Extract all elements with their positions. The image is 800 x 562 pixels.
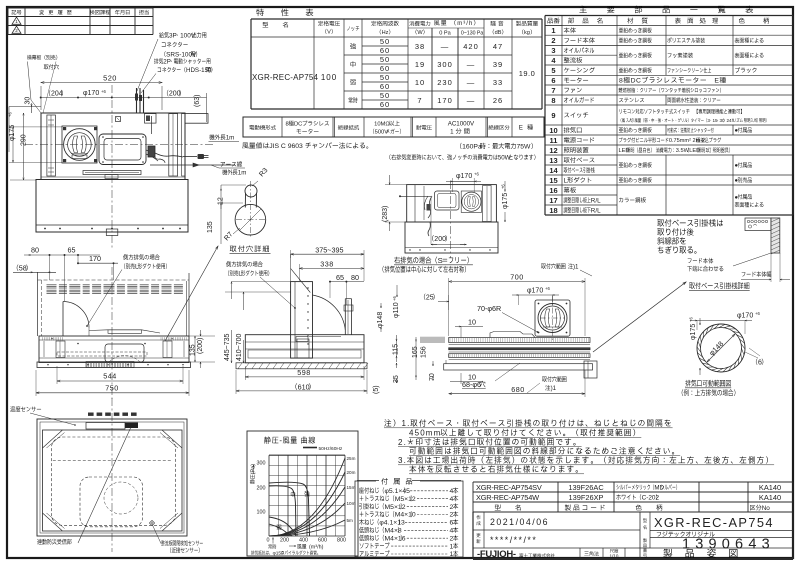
svg-text:φ170: φ170 (737, 313, 753, 320)
svg-text:6: 6 (551, 76, 555, 85)
svg-text:33: 33 (493, 78, 503, 87)
svg-text:11: 11 (550, 136, 558, 145)
svg-text:139F26AC: 139F26AC (568, 483, 604, 492)
svg-text:700: 700 (510, 273, 524, 282)
svg-text:50: 50 (380, 37, 390, 46)
svg-text:●: ● (735, 195, 739, 201)
svg-text:100: 100 (321, 73, 337, 82)
svg-text:200: 200 (434, 236, 446, 243)
svg-text:(5): (5) (373, 385, 380, 394)
svg-text:10: 10 (415, 78, 425, 87)
svg-text:m³/h: m³/h (457, 21, 473, 27)
svg-text:50: 50 (380, 91, 390, 100)
svg-text:0: 0 (267, 538, 270, 544)
svg-text:5: 5 (551, 66, 555, 75)
svg-text:15: 15 (549, 176, 557, 185)
svg-text:+6: +6 (474, 172, 479, 177)
svg-text:dB: dB (495, 30, 502, 36)
svg-text:65: 65 (68, 246, 76, 255)
svg-text:200: 200 (257, 486, 266, 492)
svg-text:(m³/h): (m³/h) (309, 545, 324, 551)
svg-text:1: 1 (551, 26, 555, 35)
svg-text:10: 10 (468, 318, 476, 327)
svg-text:****/**/**: ****/**/** (490, 535, 537, 545)
svg-text:38: 38 (415, 42, 425, 51)
svg-text:450mm: 450mm (409, 429, 441, 438)
svg-text:610: 610 (298, 382, 310, 391)
svg-text:3: 3 (707, 118, 710, 123)
svg-text:12: 12 (549, 146, 557, 155)
svg-text:50W: 50W (498, 155, 511, 162)
svg-text:680: 680 (511, 385, 525, 394)
svg-text:+6: +6 (500, 184, 505, 189)
svg-text:L: L (564, 177, 568, 184)
svg-text:φ5.1×45: φ5.1×45 (385, 488, 411, 495)
svg-text:●: ● (735, 178, 739, 184)
svg-text:4: 4 (450, 496, 454, 503)
svg-text:4: 4 (450, 488, 454, 495)
svg-text:2: 2 (450, 504, 454, 511)
svg-text:1m: 1m (238, 170, 247, 177)
svg-text:60: 60 (380, 64, 390, 73)
svg-text:M5×12: M5×12 (385, 504, 406, 511)
svg-text:600: 600 (318, 538, 327, 544)
svg-text:+6: +6 (545, 286, 550, 291)
svg-text:750: 750 (105, 384, 119, 393)
svg-text:520: 520 (103, 74, 117, 83)
svg-text:E: E (714, 78, 719, 85)
svg-text:)1: )1 (573, 264, 579, 271)
svg-text:XGR-REC-AP754W: XGR-REC-AP754W (476, 493, 539, 502)
svg-text:5m: 5m (347, 518, 354, 523)
svg-text:100V: 100V (180, 33, 196, 40)
svg-text:58: 58 (19, 264, 27, 273)
svg-text:8: 8 (286, 122, 289, 128)
svg-text:60: 60 (380, 100, 390, 109)
svg-text:139F26XP: 139F26XP (569, 493, 604, 502)
svg-text:V: V (327, 30, 331, 36)
svg-text:165: 165 (412, 346, 419, 358)
svg-text:7: 7 (417, 96, 422, 105)
svg-text:KA140: KA140 (759, 483, 781, 492)
svg-text:135: 135 (207, 221, 214, 233)
svg-text:170: 170 (89, 254, 101, 263)
svg-text:DC: DC (294, 122, 302, 128)
svg-text:2: 2 (450, 512, 454, 519)
svg-text:25: 25 (426, 295, 434, 302)
svg-text:φ148: φ148 (377, 312, 384, 328)
svg-text:115: 115 (393, 344, 400, 355)
svg-text:φ110: φ110 (393, 302, 400, 318)
svg-text:160Pa: 160Pa (462, 144, 482, 151)
svg-text:135: 135 (190, 344, 197, 356)
svg-text:200: 200 (169, 91, 181, 98)
svg-text:6: 6 (450, 520, 454, 527)
svg-text:300: 300 (437, 60, 453, 69)
svg-text:50Hz/60Hz: 50Hz/60Hz (319, 446, 343, 452)
svg-text:10: 10 (549, 126, 557, 135)
svg-text:80: 80 (351, 273, 359, 282)
svg-text:φ175: φ175 (690, 324, 697, 340)
svg-text:65: 65 (336, 273, 344, 282)
svg-text:200: 200 (280, 538, 289, 544)
svg-text:500V: 500V (375, 130, 389, 136)
svg-text:8: 8 (619, 78, 623, 85)
svg-text:S: S (438, 256, 443, 265)
svg-text:2: 2 (551, 36, 555, 45)
svg-text:M4×16: M4×16 (385, 535, 406, 542)
svg-text:15m: 15m (347, 485, 356, 490)
svg-text:230: 230 (437, 78, 453, 87)
svg-text:AC1000V: AC1000V (448, 121, 475, 128)
svg-text:+6: +6 (755, 311, 760, 316)
svg-text:1m: 1m (226, 135, 235, 142)
svg-text:-FUJIOH-: -FUJIOH- (477, 549, 516, 560)
svg-text:XGR-REC-AP754: XGR-REC-AP754 (252, 73, 319, 82)
svg-text:60: 60 (380, 46, 390, 55)
svg-text:2P: 2P (163, 59, 171, 66)
svg-text:(283): (283) (382, 206, 389, 222)
svg-text:-: - (279, 436, 282, 445)
svg-text:100: 100 (257, 510, 266, 516)
svg-text:19.0: 19.0 (519, 69, 536, 78)
svg-text:290: 290 (21, 134, 28, 146)
svg-text:2.: 2. (398, 438, 407, 447)
svg-text:+6: +6 (8, 112, 13, 117)
svg-text:φ170: φ170 (456, 173, 472, 180)
svg-text:—: — (441, 42, 450, 51)
svg-text:445~735: 445~735 (224, 333, 231, 361)
svg-text:4: 4 (450, 528, 454, 535)
svg-text:26: 26 (493, 96, 503, 105)
svg-text:JIS C 9603: JIS C 9603 (269, 143, 303, 150)
svg-text:0~130 Pa: 0~130 Pa (461, 31, 483, 37)
svg-text:80: 80 (31, 246, 39, 255)
svg-text:800: 800 (337, 538, 346, 544)
svg-text:XGR-REC-AP754SV: XGR-REC-AP754SV (476, 483, 542, 492)
svg-text:φ175: φ175 (9, 125, 16, 141)
svg-text:—: — (467, 78, 476, 87)
svg-text:2021/04/06: 2021/04/06 (490, 517, 549, 527)
svg-text:1: 1 (450, 543, 454, 550)
svg-text:420: 420 (463, 42, 479, 51)
svg-text:Hz: Hz (382, 30, 389, 36)
svg-text:7: 7 (551, 86, 555, 95)
svg-text:300: 300 (257, 461, 266, 467)
svg-text:+6: +6 (689, 317, 694, 322)
svg-text:9: 9 (551, 111, 555, 120)
svg-text:15: 15 (713, 118, 719, 123)
svg-text:—: — (467, 60, 476, 69)
svg-text:10m: 10m (347, 501, 356, 506)
svg-text:3: 3 (551, 46, 555, 55)
svg-text:SRS-100V: SRS-100V (166, 52, 197, 59)
svg-text:30: 30 (25, 97, 32, 105)
svg-text:8: 8 (551, 96, 555, 105)
svg-text:24h: 24h (727, 118, 735, 123)
svg-text:φ175: φ175 (502, 193, 509, 209)
svg-text:KA140: KA140 (759, 493, 781, 502)
svg-text:39: 39 (493, 60, 503, 69)
svg-text:0 Pa: 0 Pa (439, 31, 451, 37)
svg-text:—: — (467, 96, 476, 105)
svg-text:XGR-REC-AP754: XGR-REC-AP754 (654, 515, 774, 530)
svg-text:2: 2 (450, 535, 454, 542)
svg-text:E: E (519, 125, 527, 132)
svg-text:DC: DC (631, 78, 642, 85)
svg-text:R/L: R/L (591, 207, 601, 214)
svg-text:50: 50 (380, 55, 390, 64)
svg-text:(200): (200) (197, 338, 204, 354)
svg-text:1.: 1. (402, 419, 411, 428)
svg-text:+6: +6 (101, 89, 106, 94)
svg-text:M5×12: M5×12 (395, 496, 416, 503)
svg-text:1/10: 1/10 (610, 554, 619, 559)
svg-text:204: 204 (51, 91, 63, 98)
svg-text:17: 17 (549, 196, 557, 205)
svg-text:No: No (762, 505, 771, 512)
svg-text:kg: kg (524, 30, 530, 36)
svg-text:3.: 3. (398, 456, 407, 465)
svg-text:14: 14 (549, 166, 558, 175)
svg-text:W: W (417, 30, 423, 36)
svg-text:16: 16 (549, 186, 557, 195)
svg-text:1390643: 1390643 (682, 537, 775, 553)
svg-text:3P: 3P (169, 33, 177, 40)
svg-text:(Pa): (Pa) (251, 464, 257, 475)
svg-text:70-φ6R: 70-φ6R (477, 304, 501, 313)
svg-text:1: 1 (450, 129, 455, 136)
svg-text:375~395: 375~395 (315, 246, 343, 255)
svg-text:1: 1 (450, 551, 454, 558)
svg-text:544: 544 (103, 372, 117, 381)
svg-text:25m: 25m (347, 456, 356, 461)
svg-text:68-φ6: 68-φ6 (462, 380, 481, 389)
svg-text:18: 18 (549, 206, 557, 215)
svg-text:3.5W: 3.5W (676, 148, 690, 154)
svg-text:φ170: φ170 (83, 90, 99, 97)
svg-text:156: 156 (421, 346, 428, 358)
svg-text:50: 50 (380, 73, 390, 82)
svg-text:●: ● (735, 163, 739, 169)
svg-text:400: 400 (299, 538, 308, 544)
svg-text:598: 598 (297, 368, 311, 377)
svg-text:60: 60 (380, 82, 390, 91)
svg-text:φ170: φ170 (527, 288, 543, 295)
svg-text:6: 6 (758, 360, 762, 367)
svg-text:13: 13 (549, 156, 557, 165)
svg-text:(63): (63) (194, 95, 201, 107)
svg-text:170: 170 (437, 96, 453, 105)
svg-text:●: ● (735, 128, 739, 134)
svg-text:M4×10: M4×10 (395, 512, 416, 519)
svg-text:20m: 20m (347, 470, 356, 475)
svg-text:)1: )1 (551, 385, 557, 392)
svg-text:10MΩ: 10MΩ (374, 122, 390, 128)
svg-text:M4×8: M4×8 (385, 528, 402, 535)
svg-text:75W: 75W (517, 144, 532, 151)
svg-text:R/L: R/L (591, 197, 601, 204)
svg-text:410~700: 410~700 (236, 333, 243, 361)
svg-text:φ4.1×13: φ4.1×13 (379, 520, 405, 527)
svg-text:47: 47 (493, 42, 503, 51)
svg-text:19: 19 (415, 60, 425, 69)
svg-text:+6: +6 (392, 296, 397, 301)
svg-text:338: 338 (320, 260, 334, 269)
